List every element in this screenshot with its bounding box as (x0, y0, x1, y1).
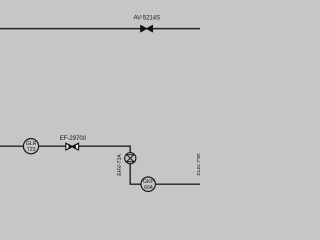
svg-text:EHV-73A: EHV-73A (117, 154, 123, 176)
svg-text:723: 723 (27, 147, 36, 153)
svg-text:604: 604 (144, 185, 153, 191)
svg-text:EHV-73B: EHV-73B (197, 153, 200, 176)
svg-text:EF-29700: EF-29700 (60, 136, 87, 142)
svg-text:AV-5214S: AV-5214S (134, 16, 161, 22)
